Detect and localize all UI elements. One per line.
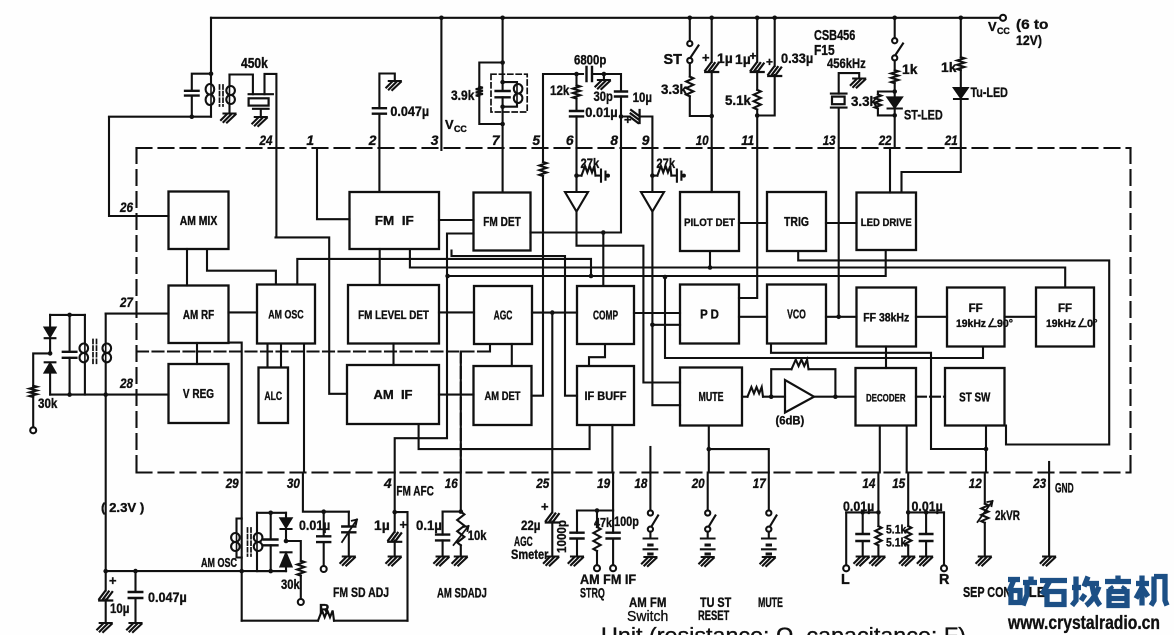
svg-text:12V): 12V) — [1016, 32, 1042, 48]
switch MUTE — [768, 473, 770, 511]
wire FM LEVEL DET to AM IF — [392, 344, 394, 366]
svg-text:6800p: 6800p — [574, 52, 606, 68]
capacitor 1000p — [576, 511, 578, 556]
bottom rail with resistor R — [242, 620, 318, 622]
wire COMP to P D — [634, 312, 680, 314]
svg-text:15: 15 — [892, 476, 905, 491]
wire TRIG to LED DRIVE — [826, 222, 857, 224]
wire pin 5 to 6800p — [543, 74, 583, 148]
svg-text:+: + — [766, 55, 773, 69]
op-amp (6dB) buffer — [785, 380, 814, 413]
svg-text:0.047µ: 0.047µ — [390, 103, 429, 119]
amplifier A1 (pin 6) — [565, 148, 588, 212]
svg-text:CSB456: CSB456 — [814, 28, 855, 44]
svg-text:1µ: 1µ — [374, 517, 390, 533]
wire pin 18 stub — [649, 447, 651, 473]
wire pin 1 to FM IF — [317, 148, 350, 219]
wire AM OSC to ALC — [268, 344, 282, 368]
ground (pin2 cap) — [386, 81, 401, 90]
block P D — [680, 285, 739, 344]
wire COMP to IF BUFF — [589, 344, 605, 366]
svg-text:R: R — [939, 572, 950, 588]
wire IF BUFF to pin 19 — [611, 425, 613, 473]
svg-text:Smeter: Smeter — [511, 547, 549, 562]
svg-text:FM IF: FM IF — [375, 213, 414, 228]
block FM DET — [474, 193, 531, 251]
wire VCC top rail — [211, 17, 1000, 19]
wire pin 3 VCC — [440, 18, 442, 150]
wire PILOT DET to TRIG — [739, 222, 767, 224]
wire AM OSC to pin 30 — [303, 344, 305, 473]
svg-text:CC: CC — [997, 26, 1010, 36]
capacitor 10u electrolytic — [105, 571, 107, 622]
block FM IF — [350, 192, 440, 249]
block AGC — [474, 286, 532, 344]
wire DECODER to pins 14 15 — [880, 426, 907, 473]
switch AM FM Switch — [649, 473, 651, 511]
svg-text:17: 17 — [753, 476, 767, 491]
varactor pair (AM OSC) — [285, 513, 287, 519]
svg-text:11: 11 — [741, 133, 754, 148]
svg-text:16: 16 — [445, 476, 458, 491]
watermark logo kuangshi shouyinji — [1008, 576, 1167, 606]
dashed box quad coil — [491, 74, 527, 112]
wire bottom left rail — [106, 570, 286, 572]
svg-text:10k: 10k — [468, 528, 487, 543]
svg-text:PILOT DET: PILOT DET — [684, 217, 735, 229]
svg-text:AGC: AGC — [494, 309, 513, 323]
diode Tu-LED — [954, 88, 968, 98]
svg-text:AM FM: AM FM — [629, 595, 666, 610]
wire rail drop to AM IFT — [210, 18, 212, 74]
svg-text:DECODER: DECODER — [866, 392, 906, 404]
wire AM RF to V REG — [196, 343, 198, 364]
svg-text:8: 8 — [610, 133, 618, 148]
svg-text:AM DET: AM DET — [485, 389, 522, 403]
svg-text:5.1k: 5.1k — [886, 523, 906, 537]
svg-text:0.01µ: 0.01µ — [585, 104, 617, 120]
svg-text:0.01µ: 0.01µ — [299, 518, 330, 533]
wire pin 24 to AM IF — [276, 237, 348, 393]
wire FM LEVEL DET to AGC — [439, 311, 474, 313]
resistor 3.3k (ST) — [690, 63, 712, 116]
wire pin 10 to PILOT DET — [711, 148, 713, 192]
block VCO — [767, 285, 826, 344]
svg-text:47k: 47k — [594, 515, 613, 530]
block ST SW — [945, 368, 1005, 426]
svg-text:COMP: COMP — [593, 309, 618, 323]
wire pin 27 / AM RF to AM OSC — [106, 312, 257, 313]
wire FF 38kHz to DECODER — [885, 347, 887, 369]
block AM MIX — [169, 192, 229, 250]
svg-text:AM RF: AM RF — [183, 308, 214, 322]
svg-text:4: 4 — [383, 476, 392, 491]
svg-text:12: 12 — [969, 476, 982, 491]
svg-text:18: 18 — [634, 476, 647, 491]
svg-text:13: 13 — [823, 133, 836, 148]
capacitor 0.01u (pin30) — [323, 512, 325, 567]
resistor 5.1k (pin 11) — [754, 90, 761, 110]
capacitor quad det — [496, 91, 510, 97]
wire AM MIX to AM RF — [186, 249, 188, 286]
wire pin 26 — [109, 117, 169, 216]
svg-text:5: 5 — [532, 133, 540, 148]
wire TRIG to ST SW loop — [798, 251, 1109, 445]
svg-text:5.1k: 5.1k — [725, 92, 751, 108]
svg-text:27k: 27k — [656, 156, 675, 171]
amplifier A2 (pin 9) — [641, 148, 664, 212]
transformer T3 (AM OSC) — [237, 519, 242, 558]
svg-text:25: 25 — [535, 476, 549, 491]
svg-text:100p: 100p — [614, 514, 639, 529]
block ALC — [259, 368, 289, 424]
svg-text:30: 30 — [287, 476, 300, 491]
svg-text:Unit (resistance: Ω, capacitan: Unit (resistance: Ω, capacitance: F) — [601, 623, 966, 635]
svg-text:1k: 1k — [902, 61, 918, 77]
resistor 3.3k (ST-LED parallel) — [878, 92, 895, 116]
wire pin 16 net — [443, 473, 461, 512]
svg-text:19kHz: 19kHz — [1046, 318, 1076, 330]
svg-text:90°: 90° — [997, 318, 1013, 330]
svg-text:AM OSC: AM OSC — [201, 555, 237, 570]
block FF 19kHz 90deg — [947, 288, 1005, 347]
svg-text:2kVR: 2kVR — [995, 508, 1020, 523]
svg-text:+: + — [750, 49, 757, 63]
wire 6800p out — [592, 74, 621, 92]
svg-text:22: 22 — [878, 133, 892, 148]
svg-text:ST: ST — [664, 52, 683, 68]
ceramic resonator 456kHz — [839, 73, 860, 94]
resistor 30k (left) — [33, 353, 50, 385]
wire FM IF to FM DET — [439, 219, 474, 221]
svg-text:30k: 30k — [38, 395, 58, 411]
wire FM DET lower-left to IF BUFF — [452, 251, 578, 396]
capacitor 0.047u (pin 2) — [379, 74, 394, 193]
varactor diode pair (left) — [49, 315, 51, 328]
wire pin 21 to LED DRIVE — [902, 148, 961, 193]
svg-text:MUTE: MUTE — [699, 390, 724, 404]
svg-text:MUTE: MUTE — [758, 595, 783, 610]
svg-text:0.1µ: 0.1µ — [416, 517, 442, 533]
capacitor AM IFT primary — [192, 74, 211, 117]
svg-text:10: 10 — [696, 133, 709, 148]
wire pin 8 to FM DET / COMP — [531, 148, 622, 286]
wire pin 4 net — [395, 473, 408, 621]
capacitor 0.33u electrolytic — [757, 18, 775, 116]
block TRIG — [767, 192, 826, 251]
transformer T2 core — [93, 340, 97, 365]
wire P D to VCO — [739, 316, 767, 318]
terminal R — [943, 512, 945, 565]
terminal L — [845, 512, 847, 565]
svg-text:3.3k: 3.3k — [661, 81, 687, 97]
capacitor 1u electrolytic (pin 4) — [394, 512, 396, 555]
capacitor 100p — [612, 511, 614, 566]
svg-text:1k: 1k — [941, 59, 957, 75]
svg-text:0°: 0° — [1087, 318, 1098, 330]
wire left tank top bracket — [50, 314, 85, 316]
svg-text:0.01µ: 0.01µ — [843, 499, 874, 514]
resistor 12k — [575, 74, 577, 85]
switch TU ST RESET — [707, 473, 709, 511]
capacitor 10u electrolytic (series to pin9) — [621, 117, 652, 149]
wire filter output to pin 24 — [265, 74, 277, 238]
capacitor left tank — [69, 315, 71, 395]
resistor 27k branch — [650, 173, 655, 178]
svg-text:30p: 30p — [594, 88, 613, 104]
svg-text:V: V — [988, 19, 997, 34]
svg-text:20: 20 — [691, 476, 705, 491]
resistor 27k branch — [574, 173, 579, 178]
capacitor 0.01u (pin6) — [575, 99, 577, 148]
transformer T2 secondary — [105, 314, 107, 395]
block V REG — [169, 364, 229, 423]
block AM OSC — [257, 285, 315, 344]
terminal VCC — [1000, 15, 1006, 21]
resistor 5.1k (pin15) — [905, 526, 911, 545]
wire AM MIX to AM OSC — [207, 249, 276, 285]
svg-text:1000p: 1000p — [554, 520, 569, 553]
svg-text:R: R — [319, 602, 330, 618]
capacitor 0.01u (R) — [925, 512, 927, 555]
wire pin 5 with internal resistor to AM DET — [542, 148, 544, 162]
resistor 1k (pin 21) — [960, 18, 962, 57]
resistor feedback over amp — [771, 369, 835, 397]
ceramic filter 450k — [230, 75, 253, 95]
svg-text:ST-LED: ST-LED — [904, 107, 943, 123]
svg-text:27k: 27k — [581, 156, 600, 171]
svg-text:450k: 450k — [241, 56, 269, 72]
svg-text:23: 23 — [1032, 476, 1046, 491]
block FM LEVEL DET — [348, 285, 439, 344]
svg-text:www.crystalradio.cn: www.crystalradio.cn — [1007, 613, 1160, 634]
wire AGC to AM DET — [511, 344, 513, 366]
svg-text:GND: GND — [1055, 481, 1074, 496]
svg-text:FM LEVEL DET: FM LEVEL DET — [358, 308, 429, 322]
svg-text:L: L — [841, 572, 850, 588]
svg-text:1µ: 1µ — [717, 50, 733, 66]
trimmer capacitor FM SD ADJ — [348, 512, 350, 556]
svg-text:28: 28 — [119, 376, 133, 391]
capacitor 0.1u — [442, 512, 444, 556]
wire AM RF to pin 29 — [229, 343, 242, 473]
svg-text:+: + — [109, 573, 117, 588]
wire T1 bottom to pin 26 riser — [109, 116, 211, 118]
svg-text:ST SW: ST SW — [959, 390, 990, 404]
svg-text:VCO: VCO — [787, 308, 806, 322]
svg-text:(6dB): (6dB) — [776, 414, 805, 428]
block PILOT DET — [680, 192, 739, 251]
block IF BUFF — [577, 366, 634, 425]
resistor 3.9k — [479, 63, 502, 125]
trimmer resistor 2kVR — [984, 473, 986, 504]
svg-text:AM IF: AM IF — [374, 387, 413, 402]
svg-text:0.047µ: 0.047µ — [148, 589, 187, 605]
svg-text:(6 to: (6 to — [1016, 16, 1048, 32]
wire pin 14 15 nets — [878, 473, 908, 527]
svg-text:19kHz: 19kHz — [956, 318, 986, 330]
wire AM IF to AM DET — [439, 394, 474, 396]
svg-text:9: 9 — [642, 133, 650, 148]
block AM DET — [474, 366, 532, 425]
coil quad det — [503, 82, 517, 107]
svg-text:AM MIX: AM MIX — [180, 214, 218, 228]
transformer T1 core — [220, 85, 224, 106]
svg-text:7: 7 — [492, 133, 501, 148]
svg-text:2: 2 — [368, 133, 377, 148]
diode ST-LED — [888, 97, 902, 107]
wire pin 11 to P D — [739, 148, 757, 298]
wire bus A : AM OSC riser to LED DRIVE — [297, 250, 885, 285]
block DECODER — [856, 368, 917, 426]
svg-text:29: 29 — [225, 476, 239, 491]
wire DECODER to ST SW — [916, 396, 945, 398]
svg-text:456kHz: 456kHz — [827, 55, 866, 71]
svg-text:1: 1 — [306, 133, 314, 148]
svg-text:6: 6 — [566, 133, 574, 148]
wire pin 7 chain — [502, 18, 504, 193]
svg-text:FM DET: FM DET — [483, 215, 521, 229]
svg-text:3.9k: 3.9k — [451, 87, 475, 103]
block FF 19kHz 0deg — [1036, 288, 1094, 347]
svg-text:3: 3 — [431, 133, 439, 148]
svg-text:FM AFC: FM AFC — [396, 484, 434, 499]
wire pin 28 riser down to bottom rail — [105, 395, 107, 571]
svg-text:10µ: 10µ — [110, 600, 129, 616]
wire branch bus A to FF90 return — [665, 277, 983, 358]
svg-text:ALC: ALC — [264, 389, 282, 403]
wire pin 30 net — [303, 473, 349, 512]
capacitor 22u electrolytic (pin 25) — [551, 473, 553, 556]
ground under T1 secondary — [221, 114, 236, 123]
svg-text:SEP CON: SEP CON — [963, 585, 1011, 601]
wire tank brackets — [257, 513, 286, 571]
resistor 5.1k (pin14) — [875, 526, 881, 545]
svg-text:IF BUFF: IF BUFF — [585, 389, 627, 403]
svg-text:STRQ: STRQ — [580, 586, 605, 601]
capacitor 6800p — [587, 67, 593, 81]
capacitor 1u electrolytic (pin 10) — [711, 18, 713, 192]
svg-text:FF 38kHz: FF 38kHz — [863, 313, 909, 325]
svg-text:RESET: RESET — [698, 608, 730, 623]
block COMP — [577, 286, 634, 344]
wire FM IF to FM LEVEL DET — [379, 249, 381, 285]
ground after 6800p — [595, 80, 610, 89]
capacitor 30p (pin8) — [615, 92, 627, 97]
wire pin 28 rail — [50, 394, 168, 396]
svg-text:FM SD ADJ: FM SD ADJ — [333, 585, 389, 600]
svg-text:30k: 30k — [281, 577, 300, 592]
wire amp A2 out to P D / MUTE — [652, 212, 680, 406]
svg-text:0.33µ: 0.33µ — [781, 50, 813, 66]
svg-text:1µ: 1µ — [735, 51, 751, 67]
wire AGC to COMP , pin 25 tap — [532, 313, 577, 473]
block FF 38kHz — [857, 288, 917, 347]
svg-text:12k: 12k — [550, 82, 570, 98]
wire pin 23 stub — [1048, 462, 1050, 473]
wire VCO bottom to pin 12 / ST SW — [771, 344, 986, 473]
capacitor 1u electrolytic (pin 11) — [756, 18, 758, 90]
capacitor 0.01u (L) — [862, 512, 864, 555]
svg-text:+: + — [702, 50, 710, 65]
wire AM IF to IF BUFF (bottom) — [419, 424, 590, 449]
svg-text:FF: FF — [969, 303, 983, 315]
svg-text:26: 26 — [119, 200, 133, 215]
svg-text:5.1k: 5.1k — [886, 536, 906, 550]
switch (pin 22) — [894, 18, 896, 38]
svg-text:V: V — [445, 117, 454, 132]
svg-text:( 2.3V ): ( 2.3V ) — [101, 500, 144, 515]
wire pin 19 net bracket — [577, 473, 613, 511]
wire MUTE to pin 20 and pin 17 — [709, 426, 769, 473]
svg-text:AM SDADJ: AM SDADJ — [437, 586, 487, 601]
wire pin 29 down — [241, 473, 243, 621]
trimmer resistor 10k — [457, 512, 464, 546]
block LED DRIVE — [857, 193, 917, 251]
wire FF 38kHz to FF 90 — [916, 316, 947, 318]
svg-text:Tu-LED: Tu-LED — [971, 85, 1009, 100]
wire FM DET to pin 4 (FM AFC) — [395, 234, 474, 473]
capacitor 0.047u (bottom) — [134, 571, 136, 622]
capacitor tank — [270, 513, 272, 571]
block AM IF — [347, 365, 439, 424]
svg-text:CC: CC — [454, 124, 467, 134]
wire VCO to FF 38kHz , pin 13 joint — [826, 316, 857, 318]
wire pin 23 to ground — [1048, 473, 1050, 556]
svg-text:FF: FF — [1058, 303, 1072, 315]
svg-text:P D: P D — [700, 308, 719, 322]
svg-text:TRIG: TRIG — [784, 215, 809, 229]
resistor 47k — [596, 511, 598, 528]
wire amp A1 out to MUTE — [577, 212, 681, 383]
svg-text:27: 27 — [119, 295, 134, 310]
block AM RF — [169, 286, 229, 344]
svg-text:+: + — [624, 112, 632, 127]
transformer T2 primary — [84, 315, 86, 395]
svg-text:3.3k: 3.3k — [851, 93, 877, 109]
transformer T1 primary — [210, 74, 212, 117]
svg-text:10µ: 10µ — [633, 89, 652, 105]
svg-text:22µ: 22µ — [521, 517, 540, 533]
wire pin 22 to LED DRIVE — [889, 148, 891, 193]
transformer T1 secondary — [228, 75, 230, 113]
wire MUTE out , resistor , amp , DECODER — [742, 396, 748, 398]
svg-text:14: 14 — [862, 476, 875, 491]
wire AGC to pin 16 , long adj bus — [137, 344, 490, 473]
resistor 1k (pin 22) — [894, 60, 896, 70]
wire FF 90 to FF 0 — [1005, 316, 1037, 318]
wire bus B : FM IF / PILOT DET to FF 19kHz 0 — [410, 249, 1065, 288]
svg-text:19: 19 — [597, 476, 610, 491]
block MUTE — [680, 368, 742, 426]
svg-text:AM OSC: AM OSC — [268, 308, 304, 322]
switch ST — [689, 18, 691, 41]
svg-text:21: 21 — [944, 133, 958, 148]
svg-text:LED DRIVE: LED DRIVE — [861, 217, 912, 229]
svg-text:+: + — [400, 517, 408, 532]
svg-text:24: 24 — [259, 133, 273, 148]
IC boundary (dashed package outline) — [137, 148, 1131, 473]
svg-text:V REG: V REG — [183, 387, 214, 401]
resistor 30k (AM OSC) — [286, 541, 301, 561]
svg-text:+: + — [541, 499, 549, 514]
